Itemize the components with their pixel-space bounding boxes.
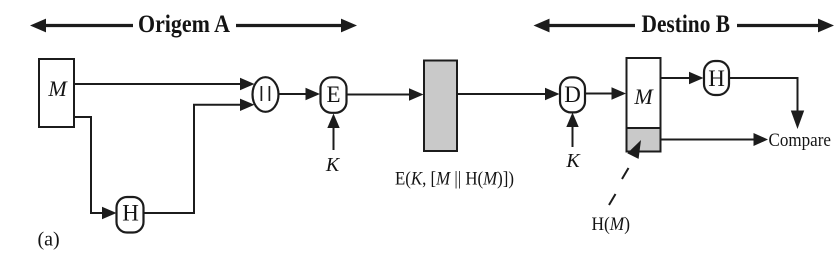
svg-text:H: H [122,201,139,226]
wire H up to concat [144,105,242,213]
svg-text:Destino B: Destino B [642,11,731,38]
key K arrow into E [333,128,335,150]
svg-text:K: K [325,154,341,176]
span arrow Destino B [534,19,835,33]
received message block M [627,58,661,128]
wire block to H (destination) [661,77,691,79]
svg-text:M: M [633,84,654,109]
svg-text:M: M [47,76,68,101]
svg-text:H(M): H(M) [592,214,631,235]
decrypt function D [560,77,585,112]
wire E to ciphertext block [347,94,411,96]
svg-text:E: E [326,82,340,107]
wire D to received block [585,93,613,95]
svg-text:D: D [564,82,581,107]
received hash section H(M) (gray) [627,128,661,152]
encrypt function E [321,77,347,113]
wire H down to compare [729,78,798,112]
hash function H (destination) [704,61,729,95]
svg-text:H: H [708,66,725,91]
concatenation node || [253,77,279,112]
dashed arrow from H(M) label to gray section [622,168,629,179]
span arrow Origem A (left segment) [30,19,357,33]
svg-text:K: K [565,150,581,172]
message block M (source) [39,59,74,127]
wire concat to E [279,93,308,95]
wire M to concat [74,83,241,85]
wire block to D [458,93,547,95]
svg-text:Origem A: Origem A [138,11,230,38]
hash function H (source) [117,197,144,233]
key K arrow into D [572,127,574,147]
svg-text:E(K, [M || H(M)]): E(K, [M || H(M)]) [395,169,514,190]
wire gray section to compare [661,139,756,141]
ciphertext block [424,61,457,152]
wire M down to H [74,117,102,213]
svg-text:Compare: Compare [769,130,832,151]
svg-text:(a): (a) [38,229,60,251]
